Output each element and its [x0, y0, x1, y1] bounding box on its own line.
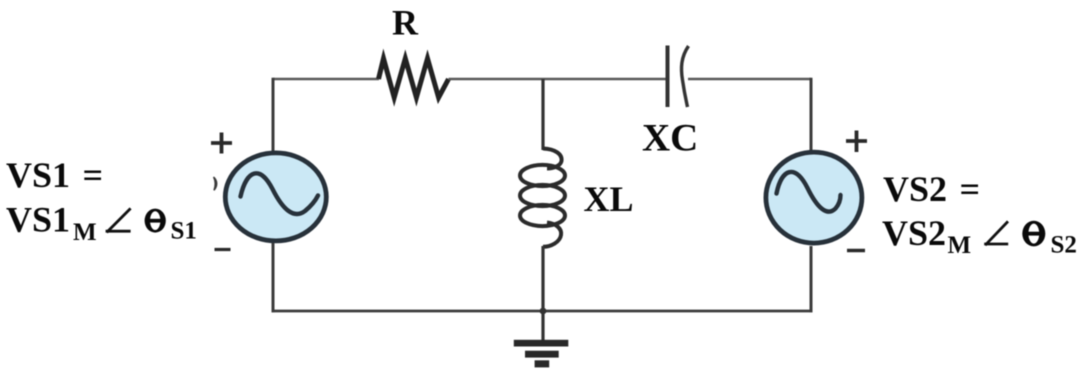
wire left branch bottom vertical — [272, 243, 275, 312]
wire right branch bottom vertical — [810, 246, 813, 312]
ground — [514, 311, 569, 367]
svg-text:S1: S1 — [171, 218, 197, 245]
svg-text:XL: XL — [584, 179, 634, 219]
wire bottom horizontal — [272, 310, 813, 313]
inductor XL — [520, 149, 565, 247]
wire top-left horizontal (node A to resistor) — [273, 78, 379, 81]
svg-text:R: R — [392, 3, 419, 43]
wire middle branch bottom vertical — [541, 246, 544, 311]
svg-text:VS1M: VS1M — [6, 200, 97, 247]
plus sign VS2 — [846, 131, 867, 153]
source VS1 — [225, 153, 326, 241]
svg-text:S2: S2 — [1051, 232, 1077, 259]
theta symbol left — [145, 209, 166, 233]
theta symbol right — [1022, 221, 1045, 247]
node junction at bottom middle — [540, 308, 547, 315]
svg-text:XC: XC — [642, 117, 698, 160]
minus sign VS1 — [215, 248, 231, 251]
wire top-right horizontal (capacitor to node B) — [688, 78, 811, 81]
angle symbol VS2 — [984, 221, 1008, 245]
svg-text:VS2 =: VS2 = — [883, 169, 980, 209]
wire top-middle horizontal (resistor to capacitor) — [449, 78, 667, 81]
artifact parenthesis near VS1 — [214, 177, 217, 190]
capacitor XC — [668, 46, 689, 108]
svg-text:VS2M: VS2M — [882, 213, 971, 259]
wire left branch top vertical — [272, 78, 275, 151]
svg-text:VS1 =: VS1 = — [6, 155, 103, 195]
minus sign VS2 — [847, 249, 865, 252]
resistor R — [379, 59, 449, 98]
wire middle branch top vertical — [541, 79, 544, 150]
source VS2 — [766, 152, 862, 243]
plus sign VS1 — [211, 133, 232, 154]
wire right branch top vertical — [810, 78, 813, 150]
angle symbol VS1 — [106, 208, 131, 232]
